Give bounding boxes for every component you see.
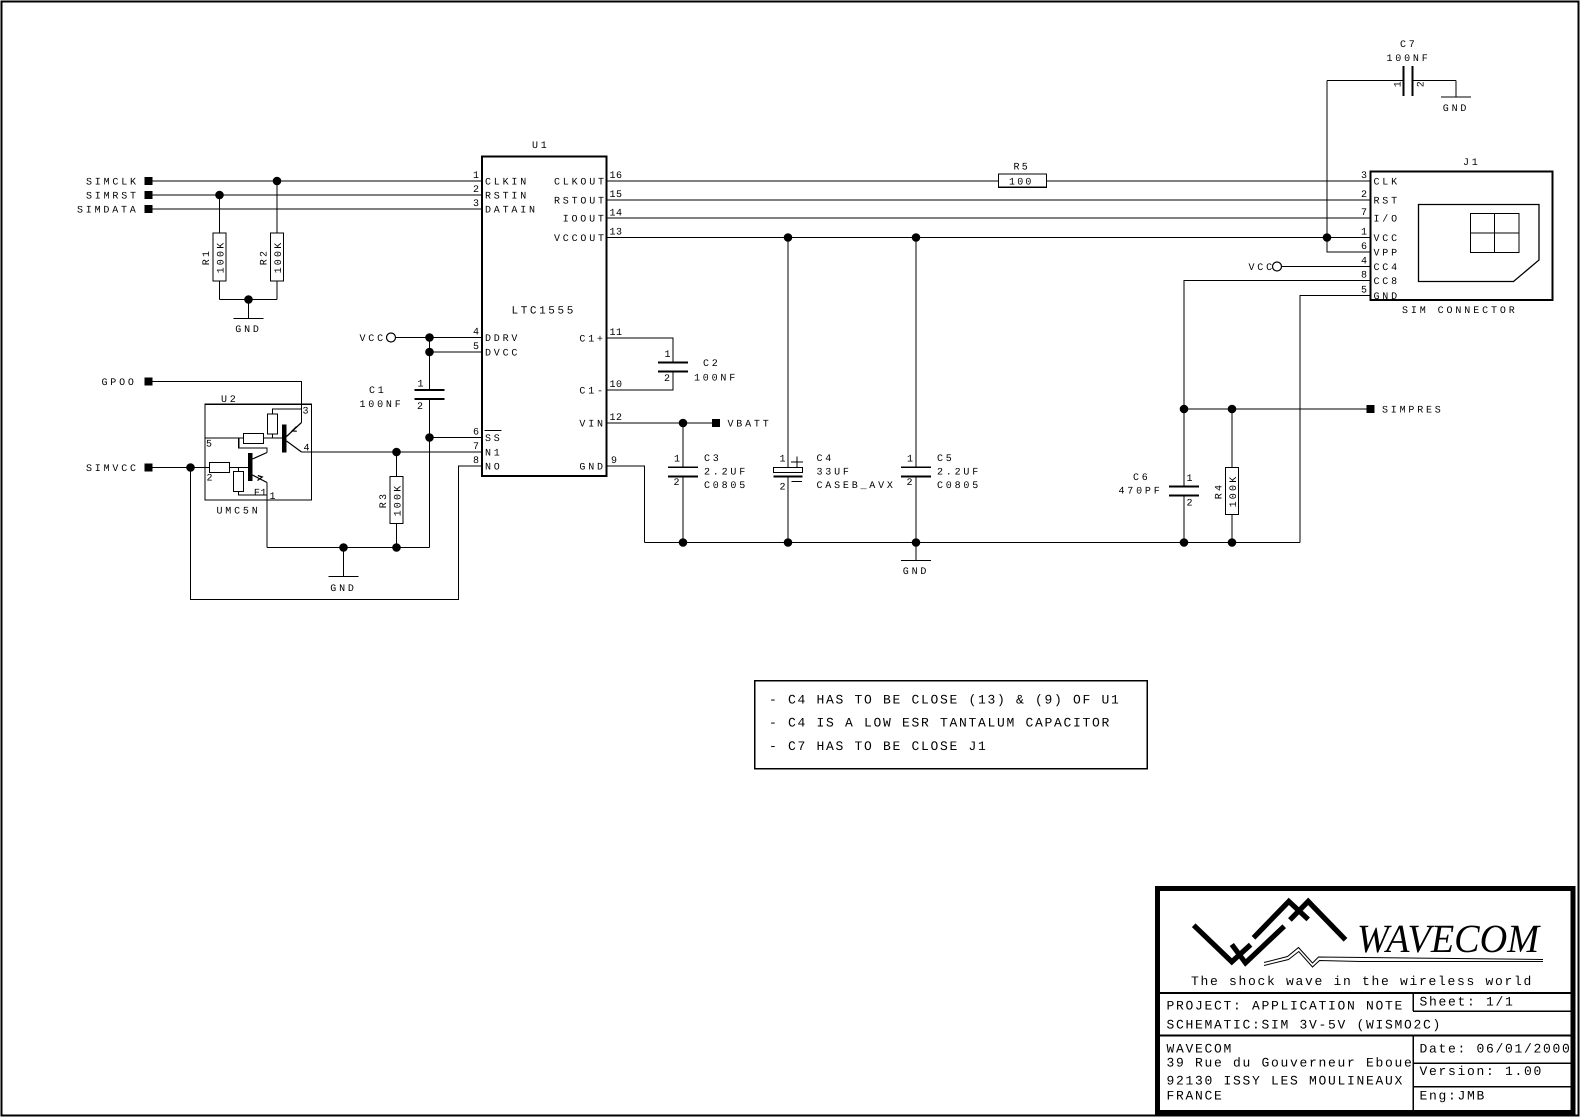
svg-text:3: 3 <box>473 199 480 210</box>
wire pin12 VIN to VBATT <box>607 422 712 424</box>
wire C7 right to gnd <box>1413 80 1457 82</box>
svg-text:IOOUT: IOOUT <box>563 215 607 226</box>
svg-text:CLKIN: CLKIN <box>485 178 529 189</box>
svg-text:C1-: C1- <box>579 387 605 398</box>
svg-text:DDRV: DDRV <box>485 334 520 345</box>
svg-text:100K: 100K <box>393 484 404 517</box>
resistor R5 100 <box>999 174 1047 187</box>
svg-text:VCCOUT: VCCOUT <box>554 234 607 245</box>
svg-text:C3: C3 <box>704 454 722 465</box>
svg-text:8: 8 <box>473 456 480 467</box>
svg-text:1: 1 <box>674 455 681 466</box>
wire U2 pin4 to U1 pin7 N1 <box>302 451 483 453</box>
resistor base lower transistor <box>210 463 230 473</box>
resistor pulldown lower transistor <box>234 472 244 492</box>
svg-text:7: 7 <box>473 442 480 453</box>
wire C7 left to VPP branch <box>1327 80 1404 82</box>
svg-text:92130 ISSY LES MOULINEAUX: 92130 ISSY LES MOULINEAUX <box>1167 1074 1405 1089</box>
svg-text:C0805: C0805 <box>937 481 981 492</box>
svg-text:2: 2 <box>780 483 787 494</box>
svg-text:39 Rue du Gouverneur Eboue: 39 Rue du Gouverneur Eboue <box>1167 1056 1414 1071</box>
wire CC8 to SIMPRES net <box>1184 281 1371 487</box>
svg-text:VIN: VIN <box>579 420 605 431</box>
node VBATT terminal <box>712 419 720 427</box>
svg-text:1: 1 <box>665 350 672 361</box>
wire emitter to pin1 down <box>266 483 268 548</box>
svg-text:GND: GND <box>235 325 261 336</box>
resistor base upper transistor <box>244 434 264 444</box>
svg-text:2.2UF: 2.2UF <box>937 468 981 479</box>
node GPOO terminal <box>144 377 152 385</box>
svg-text:RSTOUT: RSTOUT <box>554 197 607 208</box>
svg-text:The shock wave in the wireless: The shock wave in the wireless world <box>1191 974 1533 989</box>
svg-text:2: 2 <box>674 478 681 489</box>
svg-text:N1: N1 <box>485 449 503 460</box>
svg-text:470PF: 470PF <box>1119 487 1163 498</box>
svg-text:GND: GND <box>903 567 929 578</box>
svg-text:VCC: VCC <box>1374 234 1400 245</box>
junction C3 top <box>679 419 688 428</box>
svg-text:GND: GND <box>330 584 356 595</box>
svg-text:WAVECOM: WAVECOM <box>1357 916 1542 961</box>
capacitor C6 470PF <box>1169 486 1199 488</box>
wire C1 bottom down to gnd rail <box>429 399 431 547</box>
wire pin5 net to lower collector <box>239 438 267 453</box>
resistor R2 100K <box>276 181 278 233</box>
resistor R1 100K <box>219 195 221 233</box>
svg-text:CASEB_AVX: CASEB_AVX <box>817 481 896 492</box>
svg-text:R4: R4 <box>1215 483 1226 499</box>
svg-text:RST: RST <box>1374 197 1400 208</box>
wire IOOUT to J1 I/O <box>607 217 1371 219</box>
wire VCC to CC4 <box>1282 266 1371 268</box>
svg-text:RSTIN: RSTIN <box>485 192 529 203</box>
node SIMDATA terminal <box>144 205 152 213</box>
connector J1 body <box>1371 172 1553 301</box>
resistor R4 100K <box>1231 409 1233 468</box>
junction C3 bottom <box>679 538 688 547</box>
wire RSTOUT to J1 RST <box>607 199 1371 201</box>
capacitor C3 2.2UF <box>668 466 698 468</box>
capacitor C4 33UF polarized <box>791 457 803 468</box>
svg-text:16: 16 <box>610 171 623 182</box>
svg-text:SIM CONNECTOR: SIM CONNECTOR <box>1402 306 1518 317</box>
svg-text:2: 2 <box>417 402 424 413</box>
wire SIMDATA to U1 pin3 <box>153 208 482 210</box>
resistor R3 100K <box>396 452 398 477</box>
wire pin6 SS <box>430 437 483 439</box>
wire C5 to rail <box>915 476 917 542</box>
wire VCCOUT to J1 VCC <box>607 237 1371 239</box>
svg-text:CLKOUT: CLKOUT <box>554 178 607 189</box>
junction CC8/SIMPRES <box>1180 405 1189 414</box>
svg-text:5: 5 <box>473 342 480 353</box>
svg-text:1: 1 <box>1187 474 1194 485</box>
svg-text:3: 3 <box>1361 171 1368 182</box>
svg-text:10: 10 <box>610 380 623 391</box>
svg-text:SCHEMATIC:SIM 3V-5V (WISMO2C): SCHEMATIC:SIM 3V-5V (WISMO2C) <box>1167 1018 1443 1033</box>
svg-text:- C4 HAS TO BE CLOSE (13) & (9: - C4 HAS TO BE CLOSE (13) & (9) OF U1 <box>769 693 1121 708</box>
wire SIMVCC to U2 pin2 <box>153 467 205 469</box>
svg-text:2.2UF: 2.2UF <box>704 468 748 479</box>
logo wavecom mountain W <box>1194 925 1251 962</box>
svg-text:Sheet: 1/1: Sheet: 1/1 <box>1420 995 1515 1010</box>
SIM card symbol in J1 <box>1419 205 1540 282</box>
node SIMCLK terminal <box>144 177 152 185</box>
svg-text:GPOO: GPOO <box>102 378 137 389</box>
junction R3 top <box>392 448 401 457</box>
wire CLKOUT to R5 <box>607 180 999 182</box>
svg-text:- C4 IS A LOW ESR TANTALUM CAP: - C4 IS A LOW ESR TANTALUM CAPACITOR <box>769 716 1111 731</box>
svg-text:VBATT: VBATT <box>728 420 772 431</box>
svg-text:FRANCE: FRANCE <box>1167 1089 1224 1104</box>
wire VCCOUT down to C5 <box>915 238 917 468</box>
transistor Q lower of U2 <box>248 453 253 481</box>
svg-text:C5: C5 <box>937 454 955 465</box>
junction pin5 <box>425 348 434 357</box>
svg-text:E1: E1 <box>254 489 267 500</box>
svg-text:LTC1555: LTC1555 <box>512 306 576 318</box>
svg-text:PROJECT: APPLICATION NOTE: PROJECT: APPLICATION NOTE <box>1167 999 1405 1014</box>
svg-text:SIMPRES: SIMPRES <box>1382 406 1444 417</box>
svg-text:U1: U1 <box>532 141 550 152</box>
svg-text:VPP: VPP <box>1374 249 1400 260</box>
junction R3 bottom <box>392 543 401 552</box>
svg-text:R5: R5 <box>1014 163 1030 174</box>
svg-text:C1+: C1+ <box>579 335 605 346</box>
junction R4 top <box>1228 405 1237 414</box>
logo wave underline <box>1264 948 1543 964</box>
svg-text:1: 1 <box>1394 81 1405 88</box>
wire U1 pin9 GND to rail <box>607 466 645 543</box>
wire main ground rail <box>645 542 1301 544</box>
op-amp U1 LTC1555 body <box>482 157 607 477</box>
svg-text:GND: GND <box>1374 292 1400 303</box>
svg-text:100NF: 100NF <box>694 374 738 385</box>
svg-text:1: 1 <box>907 455 914 466</box>
wire C2 to pin10 C1- <box>607 372 674 390</box>
junction C5 top on VCCOUT line <box>912 233 921 242</box>
svg-text:C1: C1 <box>369 386 387 397</box>
wire SIMVCC loop to U1 pin8 NO <box>191 466 483 600</box>
svg-text:CC4: CC4 <box>1374 263 1400 274</box>
junction VCC/VPP branch <box>1323 233 1332 242</box>
svg-text:100K: 100K <box>274 241 285 274</box>
ground under R1 R2 <box>248 300 250 319</box>
svg-text:100: 100 <box>1009 177 1034 188</box>
svg-text:SIMDATA: SIMDATA <box>77 206 139 217</box>
power VCC terminal at J1 CC4 <box>1273 262 1282 271</box>
title block dividers <box>1160 992 1571 994</box>
svg-text:100K: 100K <box>1229 475 1240 508</box>
svg-text:12: 12 <box>610 413 623 424</box>
svg-text:UMC5N: UMC5N <box>217 507 261 518</box>
wire SIMPRES line <box>1184 408 1367 410</box>
svg-text:6: 6 <box>473 428 480 439</box>
transistor Q upper of U2 <box>282 425 287 453</box>
svg-text:4: 4 <box>1361 257 1368 268</box>
resistor pullup upper transistor <box>268 414 278 434</box>
svg-text:2: 2 <box>907 478 914 489</box>
svg-text:SS: SS <box>485 434 503 445</box>
svg-text:SIMVCC: SIMVCC <box>86 464 139 475</box>
wire R1-R2 common <box>220 299 278 301</box>
svg-text:Eng:JMB: Eng:JMB <box>1420 1089 1487 1104</box>
svg-text:C2: C2 <box>703 359 721 370</box>
svg-text:R1: R1 <box>202 249 213 265</box>
svg-text:2: 2 <box>1417 81 1428 88</box>
svg-text:2: 2 <box>664 374 671 385</box>
wire C3 to rail <box>682 476 684 542</box>
wire C4 to rail <box>787 477 789 543</box>
svg-text:DATAIN: DATAIN <box>485 206 538 217</box>
wire SIMRST to U1 pin2 <box>153 194 482 196</box>
svg-text:7: 7 <box>1361 208 1368 219</box>
junction SIMCLK/R2 <box>273 177 282 186</box>
svg-text:Version: 1.00: Version: 1.00 <box>1420 1064 1544 1079</box>
svg-text:100NF: 100NF <box>1387 54 1431 65</box>
wire down to C3 <box>682 423 684 467</box>
junction pin6 <box>425 433 434 442</box>
svg-text:2: 2 <box>1361 190 1368 201</box>
svg-text:11: 11 <box>610 328 623 339</box>
svg-text:C0805: C0805 <box>704 481 748 492</box>
svg-text:9: 9 <box>611 456 618 467</box>
wire GPOO to U2 pin3 <box>153 382 302 423</box>
svg-text:2: 2 <box>207 474 214 485</box>
capacitor C5 2.2UF <box>901 466 931 468</box>
svg-text:100K: 100K <box>216 241 227 274</box>
wire J1 GND to rail <box>1300 296 1371 543</box>
svg-text:8: 8 <box>1361 271 1368 282</box>
svg-text:C7: C7 <box>1400 40 1418 51</box>
svg-text:I/O: I/O <box>1374 214 1400 226</box>
wire VCC down to C1 <box>429 338 431 391</box>
svg-text:2: 2 <box>1187 499 1194 510</box>
junction C6 bottom <box>1180 538 1189 547</box>
ground at main rail <box>915 543 917 561</box>
wire pin5 DVCC <box>430 351 483 353</box>
svg-text:5: 5 <box>1361 286 1368 297</box>
node SIMVCC terminal <box>144 463 152 471</box>
ground at C7 <box>1455 81 1457 98</box>
wire R5 to J1 CLK <box>1047 180 1371 182</box>
junction C4 top on VCCOUT line <box>784 233 793 242</box>
wire VCC to pin4 DDRV <box>396 337 483 339</box>
junction U2 gnd stem <box>339 543 348 552</box>
svg-text:3: 3 <box>303 407 310 418</box>
junction R1/R2 gnd <box>244 295 253 304</box>
svg-text:CLK: CLK <box>1374 178 1400 189</box>
node SIMRST terminal <box>144 191 152 199</box>
capacitor C2 100NF <box>658 362 688 364</box>
svg-text:U2: U2 <box>221 395 239 406</box>
svg-text:Date: 06/01/2000: Date: 06/01/2000 <box>1420 1042 1572 1057</box>
svg-text:100NF: 100NF <box>360 400 404 411</box>
junction pin4 <box>425 333 434 342</box>
svg-text:- C7 HAS TO BE CLOSE J1: - C7 HAS TO BE CLOSE J1 <box>769 739 988 754</box>
svg-text:DVCC: DVCC <box>485 349 520 360</box>
junction C4 bottom <box>784 538 793 547</box>
svg-text:1: 1 <box>418 380 425 391</box>
wire VCCOUT down to C4 <box>787 238 789 468</box>
wire U2 ground rail <box>267 547 430 549</box>
svg-text:GND: GND <box>1443 104 1469 115</box>
svg-text:1: 1 <box>780 455 787 466</box>
svg-text:R2: R2 <box>260 249 271 265</box>
svg-text:VCC: VCC <box>360 334 386 345</box>
svg-text:C4: C4 <box>817 454 835 465</box>
svg-text:J1: J1 <box>1463 158 1481 169</box>
svg-text:CC8: CC8 <box>1374 277 1400 288</box>
wire SIMCLK to U1 pin1 <box>153 180 482 182</box>
svg-text:1: 1 <box>473 171 480 182</box>
svg-text:SIMRST: SIMRST <box>86 192 139 203</box>
junction R4 bottom <box>1228 538 1237 547</box>
junction C5 bottom <box>912 538 921 547</box>
svg-text:WAVECOM: WAVECOM <box>1167 1042 1234 1057</box>
svg-text:4: 4 <box>304 444 311 455</box>
svg-text:SIMCLK: SIMCLK <box>86 178 139 189</box>
svg-text:1: 1 <box>1361 228 1368 239</box>
title block outer border <box>1158 889 1574 1113</box>
svg-text:C6: C6 <box>1133 473 1151 484</box>
svg-text:2: 2 <box>473 185 480 196</box>
svg-text:33UF: 33UF <box>817 468 852 479</box>
svg-text:13: 13 <box>610 228 623 239</box>
svg-text:6: 6 <box>1361 242 1368 253</box>
power VCC terminal at U1 <box>387 333 396 342</box>
wire VPP branch vertical <box>1327 81 1371 253</box>
wire C6 to rail <box>1183 496 1185 543</box>
notes box <box>755 681 1148 769</box>
capacitor C1 100NF <box>415 389 445 391</box>
transistor array U2 UMC5N body <box>205 404 312 500</box>
svg-text:NO: NO <box>485 463 503 474</box>
svg-text:15: 15 <box>610 190 623 201</box>
svg-text:1: 1 <box>270 492 277 503</box>
node SIMPRES terminal <box>1366 405 1374 413</box>
junction SIMRST/R1 <box>215 191 224 200</box>
svg-text:GND: GND <box>579 463 605 474</box>
wire pin11 C1+ to C2 <box>607 338 674 363</box>
ground under U2 <box>343 548 345 577</box>
svg-text:4: 4 <box>473 328 480 339</box>
svg-text:VCC: VCC <box>1249 263 1275 274</box>
junction SIMVCC loop <box>186 463 195 472</box>
svg-text:5: 5 <box>206 440 213 451</box>
svg-text:R3: R3 <box>379 492 390 508</box>
